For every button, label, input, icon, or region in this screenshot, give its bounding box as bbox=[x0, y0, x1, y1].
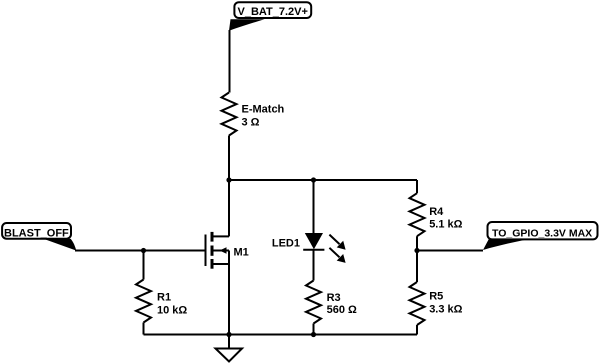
wire top rail bbox=[229, 179, 417, 181]
svg-text:3 Ω: 3 Ω bbox=[242, 117, 260, 129]
resistor R1 10k bbox=[136, 280, 187, 323]
svg-text:R1: R1 bbox=[157, 291, 171, 303]
node junction LED-top bbox=[311, 177, 316, 182]
wire BLAST_OFF to gate bbox=[75, 250, 206, 252]
svg-text:560 Ω: 560 Ω bbox=[327, 304, 357, 316]
net flag BLAST_OFF bbox=[2, 223, 76, 250]
node junction gate/R1 bbox=[141, 248, 146, 253]
wire R3 to bottom rail bbox=[313, 324, 315, 335]
resistor R5 3.3k bbox=[410, 282, 463, 325]
svg-text:R5: R5 bbox=[429, 291, 443, 303]
node junction drain-top bbox=[226, 177, 231, 182]
svg-text:BLAST_OFF: BLAST_OFF bbox=[4, 228, 69, 240]
net flag TO_GPIO_3.3V MAX bbox=[483, 222, 598, 250]
wire node to GPIO flag bbox=[417, 250, 483, 252]
wire bottom rail bbox=[144, 334, 418, 336]
ground bbox=[216, 335, 243, 362]
wire LED1 to R3 bbox=[313, 250, 315, 281]
svg-text:5.1 kΩ: 5.1 kΩ bbox=[429, 218, 462, 230]
net flag V_BAT_7.2V+ bbox=[229, 2, 311, 31]
wire source to bottom rail bbox=[228, 264, 230, 335]
wire top rail to LED1 bbox=[313, 180, 315, 233]
node junction divider bbox=[414, 248, 419, 253]
resistor E-Match 3 ohm bbox=[222, 93, 285, 136]
wire V_BAT to E-Match bbox=[229, 30, 231, 93]
LED LED1 bbox=[272, 233, 346, 263]
wire top rail corner to R4 bbox=[416, 180, 418, 193]
svg-text:R3: R3 bbox=[327, 292, 341, 304]
svg-text:M1: M1 bbox=[234, 247, 249, 259]
node junction ground bbox=[226, 332, 231, 337]
svg-text:LED1: LED1 bbox=[272, 237, 300, 249]
transistor M1 NMOS bbox=[206, 232, 249, 269]
node junction R3-bottom bbox=[311, 332, 316, 337]
svg-text:TO_GPIO_3.3V MAX: TO_GPIO_3.3V MAX bbox=[492, 228, 592, 240]
wire top rail to drain bbox=[228, 180, 230, 236]
resistor R4 5.1k bbox=[410, 193, 463, 236]
wire R5 to bottom rail bbox=[416, 325, 418, 335]
svg-text:10 kΩ: 10 kΩ bbox=[157, 304, 187, 316]
wire node to R5 bbox=[416, 251, 418, 283]
wire R1 to bottom rail bbox=[143, 323, 145, 335]
svg-text:R4: R4 bbox=[429, 206, 444, 218]
resistor R3 560 ohm bbox=[306, 281, 357, 324]
svg-text:E-Match: E-Match bbox=[242, 104, 285, 116]
wire junction to R1 bbox=[143, 251, 145, 280]
svg-text:V_BAT_7.2V+: V_BAT_7.2V+ bbox=[238, 6, 308, 18]
wire E-Match to top rail bbox=[228, 136, 230, 181]
wire R4 to node bbox=[416, 236, 418, 250]
svg-text:3.3 kΩ: 3.3 kΩ bbox=[429, 303, 462, 315]
